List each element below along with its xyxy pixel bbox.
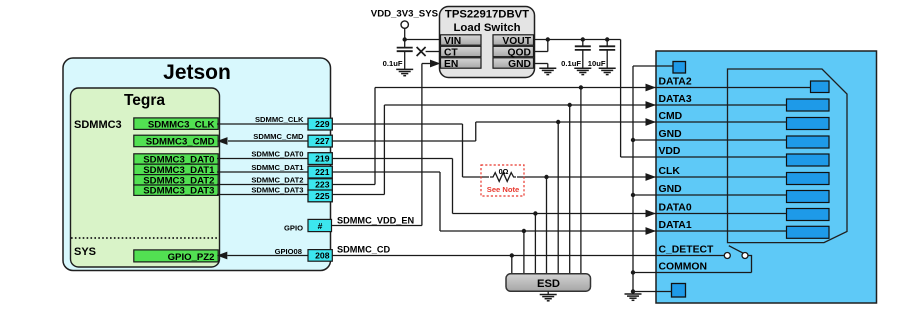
svg-text:Jetson: Jetson: [163, 61, 231, 84]
wire CMD row: [476, 121, 787, 123]
pin EN of U1: [441, 58, 482, 68]
shield pin bottom square: [672, 284, 686, 298]
pin VIN of U1: [441, 35, 482, 45]
note box dashed: [481, 165, 524, 196]
svg-text:SDMMC_CLK: SDMMC_CLK: [255, 115, 304, 124]
svg-text:SYS: SYS: [74, 246, 96, 258]
svg-text:SDMMC_DAT1: SDMMC_DAT1: [251, 163, 304, 172]
wire SDMMC_DAT1 from pin 221: [332, 171, 440, 173]
pad VDD of card: [787, 154, 830, 166]
module Tegra (inner block): [71, 88, 220, 267]
junction VIN node: [403, 37, 407, 41]
wire SDMMC_DAT1 (port to pin 221): [217, 171, 308, 173]
capacitor C2 0.1uF plates: [575, 46, 591, 50]
arrow into GPIO_PZ2: [217, 252, 228, 260]
wire SDMMC_VDD_EN from pin #: [332, 225, 422, 227]
junction GND2-rail: [631, 193, 635, 197]
module Jetson (SoC block): [63, 58, 331, 271]
svg-text:208: 208: [315, 251, 330, 261]
wire SDMMC_CLK from pin 229: [332, 123, 463, 125]
port SDMMC3_CMD: [134, 135, 218, 147]
svg-text:SDMMC_CD: SDMMC_CD: [337, 245, 390, 255]
pin 208 (GPIO08): [308, 250, 332, 262]
ground below C1: [396, 69, 413, 75]
wire SDMMC_DAT3 riser: [383, 105, 385, 195]
pin 219 (SDMMC_DAT0): [308, 153, 332, 165]
port SDMMC3_DAT2: [134, 175, 218, 185]
junction CLK-ESD: [544, 175, 548, 179]
svg-text:CT: CT: [444, 47, 458, 58]
wire CLK row left of R1: [463, 176, 490, 178]
svg-text:225: 225: [315, 191, 330, 201]
junction DATA0-ESD: [533, 211, 537, 215]
shield pin top square: [673, 62, 686, 74]
wire CLK row right of R1: [517, 176, 787, 178]
capacitor C3 10uF plates: [599, 46, 615, 50]
pad DAT2 of card: [811, 81, 830, 93]
wire SDMMC_DAT3 from pin 225: [332, 194, 384, 196]
wire C3 upper lead: [606, 40, 608, 47]
wire SDMMC_DAT0 from pin 219: [332, 158, 453, 160]
no-connect X on CT: [417, 47, 426, 56]
svg-text:223: 223: [315, 180, 330, 190]
wire SDMMC_DAT0 (port to pin 219): [217, 158, 308, 160]
junction GND1-rail: [631, 138, 635, 142]
arrow into EN: [430, 60, 441, 68]
wire VDD_3V3_SYS drop: [404, 28, 406, 47]
svg-text:SDMMC_CMD: SDMMC_CMD: [253, 132, 304, 141]
svg-text:SDMMC3: SDMMC3: [74, 119, 122, 131]
junction C2 on VOUT rail: [581, 37, 585, 41]
pin 225 (SDMMC_DAT3): [308, 190, 332, 202]
wire GPIO_PZ2 (pin 208 to port): [227, 255, 308, 257]
port SDMMC3_DAT1: [134, 164, 218, 174]
svg-text:219: 219: [315, 154, 330, 164]
svg-text:TPS22917DBVT: TPS22917DBVT: [445, 9, 529, 21]
ground below C2: [574, 68, 591, 74]
pin 221 (SDMMC_DAT1): [308, 166, 332, 178]
svg-text:0Ω: 0Ω: [499, 167, 509, 176]
svg-text:SDMMC3_DAT3: SDMMC3_DAT3: [143, 186, 214, 197]
svg-text:VDD: VDD: [659, 146, 681, 157]
wire DATA2 row: [375, 87, 811, 89]
wire C2 lower lead: [582, 50, 584, 68]
junction DATA3-ESD: [568, 103, 572, 107]
arrow into DATA0: [646, 210, 657, 218]
wire to VIN: [405, 39, 441, 41]
svg-text:EN: EN: [444, 59, 458, 70]
ground below C3: [599, 68, 616, 74]
svg-text:229: 229: [315, 119, 330, 129]
junction DATA2-ESD: [579, 85, 583, 89]
svg-text:227: 227: [315, 136, 330, 146]
svg-text:See Note: See Note: [487, 185, 520, 194]
wire C2 upper lead: [582, 40, 584, 47]
pad DAT1 of card: [787, 226, 830, 238]
wire GND row 2: [633, 194, 787, 196]
wire SDMMC_CMD riser: [475, 122, 477, 141]
wire VOUT rail: [534, 39, 621, 41]
svg-text:SDMMC_DAT3: SDMMC_DAT3: [251, 185, 303, 194]
resistor R1 0 ohm on CLK: [490, 173, 516, 182]
wire ESD drop CD: [511, 256, 513, 275]
wire ESD drop DATA1: [523, 231, 525, 274]
arrow into CLK: [646, 173, 657, 181]
wire QOD riser to VOUT: [547, 40, 549, 52]
wire SDMMC_CMD (pin 227 to port): [228, 140, 308, 142]
wire connector ground rail: [632, 66, 634, 294]
pin QOD of U1: [493, 46, 534, 56]
pin 229 (SDMMC_CLK): [308, 118, 332, 130]
svg-text:SDMMC3_CMD: SDMMC3_CMD: [146, 137, 215, 148]
wire DATA3 row: [384, 104, 786, 106]
wire GND drop of U1: [547, 64, 549, 69]
svg-text:GPIO: GPIO: [284, 224, 303, 233]
svg-text:QOD: QOD: [508, 47, 531, 58]
svg-text:SDMMC_VDD_EN: SDMMC_VDD_EN: [337, 216, 414, 226]
wire SDMMC_CMD from pin 227: [332, 140, 476, 142]
junction CD-ESD: [510, 253, 514, 257]
pad CLK of card: [787, 173, 830, 185]
svg-text:0.1uF: 0.1uF: [383, 59, 403, 68]
arrow into DATA2: [646, 84, 657, 92]
svg-text:SDMMC_DAT2: SDMMC_DAT2: [251, 175, 303, 184]
pin VOUT of U1: [493, 35, 534, 45]
svg-text:GND: GND: [659, 184, 683, 195]
wire shield top stub: [633, 65, 673, 67]
wire C3 lower lead: [606, 50, 608, 68]
svg-text:CLK: CLK: [659, 166, 681, 177]
svg-text:GPIO08: GPIO08: [275, 247, 302, 256]
svg-text:DATA2: DATA2: [659, 77, 692, 88]
junction DATA1-ESD: [522, 229, 526, 233]
wire C1 lower lead: [404, 51, 406, 69]
wire GND stub of U1: [534, 63, 548, 65]
wire from switch to COMMON: [748, 256, 752, 273]
port SDMMC3_DAT3: [134, 185, 218, 195]
arrow into SDMMC3_CMD: [217, 137, 228, 145]
svg-text:#: #: [318, 221, 323, 231]
pin CT of U1: [441, 46, 482, 56]
svg-text:COMMON: COMMON: [659, 262, 707, 273]
arrow into DATA1: [646, 227, 657, 235]
wire QOD stub: [534, 51, 548, 53]
svg-text:C_DETECT: C_DETECT: [659, 245, 714, 256]
wire DATA1 row: [440, 230, 787, 232]
wire SDMMC_DAT2 (port to pin 223): [217, 184, 308, 186]
switch lever: [729, 246, 743, 254]
wire VDD feed drop: [620, 40, 622, 158]
svg-text:CMD: CMD: [659, 111, 683, 122]
pin 227 (SDMMC_CMD): [308, 135, 332, 147]
ESD array U2: [506, 274, 591, 291]
pad GND2 of card: [787, 191, 830, 203]
pin GND of U1: [493, 58, 534, 68]
svg-text:DATA1: DATA1: [659, 220, 692, 231]
wire CT stub: [426, 51, 441, 53]
arrow into CMD: [646, 118, 657, 126]
wire COMMON row: [633, 272, 752, 274]
svg-text:Load Switch: Load Switch: [453, 22, 520, 34]
wire VDD row: [621, 156, 787, 158]
separator dashed line inside Tegra: [71, 237, 219, 239]
port GPIO_PZ2: [134, 250, 218, 262]
svg-text:SDMMC3_CLK: SDMMC3_CLK: [148, 120, 215, 131]
svg-text:SDMMC_DAT0: SDMMC_DAT0: [251, 149, 303, 158]
wire SDMMC_DAT1 riser: [439, 172, 441, 231]
capacitor C1 0.1uF plates: [397, 48, 413, 52]
wire ESD drop DATA3: [569, 105, 571, 274]
svg-text:ESD: ESD: [537, 278, 560, 290]
load switch U1 TPS22917DBVT body: [440, 7, 535, 78]
junction CMD-ESD: [556, 120, 560, 124]
arrow into DATA3: [646, 101, 657, 109]
wire EN stub: [422, 63, 433, 65]
wire DATA0 row: [453, 213, 787, 215]
pad GND1 of card: [787, 136, 830, 148]
wire SDMMC_VDD_EN vertical riser: [421, 64, 423, 226]
ground of connector: [625, 294, 642, 300]
wire ESD ground lead: [547, 291, 549, 294]
svg-text:Tegra: Tegra: [124, 92, 165, 109]
svg-text:GPIO_PZ2: GPIO_PZ2: [168, 252, 215, 263]
pad DAT0 of card: [787, 209, 830, 221]
svg-text:DATA3: DATA3: [659, 94, 692, 105]
wire shield bottom stub: [633, 291, 672, 293]
wire SDMMC_CLK riser: [462, 124, 464, 177]
ground below U1 GND: [539, 68, 556, 74]
junction COMMON-rail: [631, 270, 635, 274]
wire SDMMC_CD row: [332, 255, 724, 257]
wire SDMMC_DAT2 from pin 223: [332, 184, 375, 186]
wire SDMMC_DAT3 (port to pin 225): [217, 194, 308, 196]
wire SDMMC_DAT0 riser: [452, 159, 454, 214]
wire ESD drop DATA2: [580, 88, 582, 275]
pin 223 (SDMMC_DAT2): [308, 179, 332, 191]
ground below ESD: [540, 295, 557, 301]
port SDMMC3_CLK: [134, 118, 218, 129]
svg-text:VDD_3V3_SYS: VDD_3V3_SYS: [371, 9, 439, 20]
pad DAT3 of card: [787, 99, 830, 111]
switch contact circle 1: [724, 253, 730, 259]
wire SDMMC_DAT2 riser: [374, 88, 376, 185]
svg-text:GND: GND: [659, 129, 683, 140]
svg-text:GND: GND: [508, 59, 531, 70]
svg-text:0.1uF: 0.1uF: [561, 59, 581, 68]
wire ESD drop CLK: [546, 177, 548, 274]
svg-text:221: 221: [315, 167, 330, 177]
wire ESD drop CMD: [557, 122, 559, 274]
junction C3 on VOUT rail: [605, 37, 609, 41]
SD card connector block: [656, 51, 877, 303]
junction QOD-VOUT: [546, 37, 550, 41]
svg-text:VOUT: VOUT: [502, 36, 531, 47]
wire GND row 1: [633, 139, 787, 141]
wire SDMMC_CLK (port to pin 229): [217, 123, 308, 125]
switch contact circle 2: [742, 253, 748, 259]
svg-text:DATA0: DATA0: [659, 203, 692, 214]
junction shield bottom: [631, 289, 635, 293]
pad CMD of card: [787, 118, 830, 130]
power tap VDD_3V3_SYS: [401, 21, 408, 28]
svg-text:VIN: VIN: [444, 36, 461, 47]
pin # (GPIO): [308, 219, 332, 231]
svg-text:10uF: 10uF: [588, 59, 606, 68]
port SDMMC3_DAT0: [134, 154, 218, 164]
SD card outline: [728, 69, 848, 243]
wire ESD drop DATA0: [534, 214, 536, 275]
